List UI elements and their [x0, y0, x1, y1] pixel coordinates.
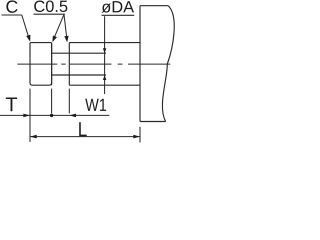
centerline — [17, 63, 171, 65]
body top line — [140, 5, 168, 7]
L right arrow pointing right — [133, 135, 140, 139]
øDA bottom arrow pointing up — [103, 75, 106, 80]
C leader line — [22, 15, 30, 40]
W1 dimension arrow pointing left — [69, 114, 76, 118]
label C0.5 — [34, 0, 67, 12]
C0.5 right leader arrowhead — [64, 36, 68, 43]
C label underline — [2, 14, 22, 16]
W1 right extension line — [68, 89, 70, 114]
C0.5 left leader arrowhead — [52, 35, 57, 42]
T dimension arrow pointing right — [23, 114, 30, 118]
body left edge — [139, 6, 141, 122]
label øDA — [102, 1, 134, 13]
L left extension line below head — [29, 89, 31, 142]
C0.5 label underline — [34, 13, 65, 15]
thread major diameter bottom line — [69, 84, 140, 86]
label L — [79, 122, 87, 136]
groove left wall — [51, 43, 53, 86]
W1 dimension termination dot — [50, 114, 53, 117]
label W1 — [85, 99, 106, 111]
thread minor diameter top line — [52, 52, 106, 54]
øDA dimension leader vertical — [104, 16, 106, 94]
label C — [6, 0, 17, 12]
thread major diameter top line — [69, 42, 140, 44]
øDA label underline — [102, 14, 135, 16]
C0.5 left leader line — [53, 14, 64, 39]
thread minor diameter bottom line — [52, 74, 106, 76]
body break curve — [162, 6, 174, 122]
W1 left extension line — [51, 89, 53, 114]
øDA top arrow pointing down — [103, 48, 106, 53]
C leader arrowhead — [26, 35, 30, 42]
L left arrow pointing left — [30, 135, 37, 139]
head (screw head outline, chamfered corners) — [30, 43, 52, 86]
L right extension line — [139, 127, 141, 143]
C0.5 right leader line — [64, 14, 67, 40]
groove right wall — [68, 43, 70, 86]
label T — [6, 97, 17, 111]
body bottom line — [140, 121, 166, 123]
T / W1 dimension line — [0, 114, 109, 116]
L dimension line — [30, 136, 140, 138]
